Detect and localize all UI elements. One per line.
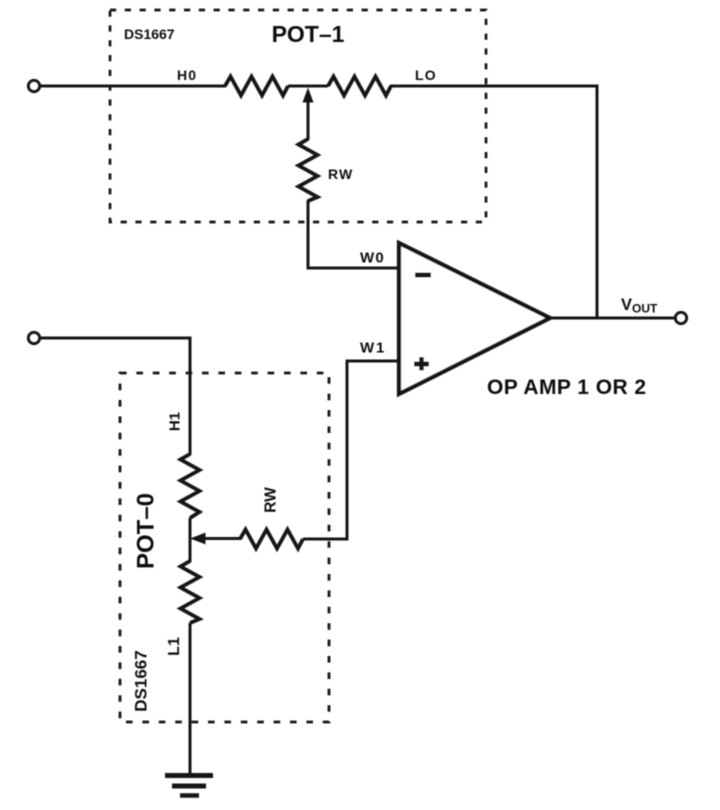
svg-text:DS1667: DS1667 bbox=[132, 650, 151, 711]
svg-text:L1: L1 bbox=[166, 637, 183, 656]
svg-text:RW: RW bbox=[263, 487, 280, 513]
wiper arrow of POT-0 bbox=[190, 533, 206, 545]
input terminal T1 bbox=[28, 80, 39, 91]
resistor L1 side (POT-0 lower element) bbox=[181, 561, 200, 623]
ground bbox=[165, 773, 213, 778]
svg-text:H0: H0 bbox=[177, 67, 197, 83]
wire H1 element to L1 element (through wiper node) bbox=[189, 518, 192, 562]
resistor H0 side (POT-1 upper element) bbox=[225, 77, 288, 96]
wiper arrow of POT-1 bbox=[303, 88, 314, 103]
wire T1 to H0 resistor bbox=[40, 85, 226, 88]
svg-text:W0: W0 bbox=[360, 250, 385, 267]
op-amp U1 bbox=[399, 243, 550, 394]
resistor LO side (POT-1 lower element) bbox=[328, 77, 391, 96]
resistor RW of POT-1 bbox=[299, 139, 318, 201]
svg-text:RW: RW bbox=[328, 166, 353, 182]
resistor RW of POT-0 bbox=[240, 530, 303, 549]
svg-text:DS1667: DS1667 bbox=[124, 26, 175, 42]
svg-text:POT–0: POT–0 bbox=[133, 493, 160, 569]
wire RW to W1 (op-amp non-inverting input) bbox=[303, 361, 399, 539]
dashed box POT-1 (DS1667) bbox=[110, 10, 486, 222]
input terminal T2 bbox=[28, 332, 39, 343]
svg-text:W1: W1 bbox=[360, 340, 386, 357]
wire RW to W0 (op-amp inverting input) bbox=[308, 200, 399, 268]
svg-text:POT–1: POT–1 bbox=[272, 21, 345, 47]
wire L1 to ground bbox=[189, 623, 192, 776]
wire LO to output node bbox=[390, 86, 597, 318]
svg-text:OP AMP 1 OR 2: OP AMP 1 OR 2 bbox=[487, 376, 647, 399]
svg-text:LO: LO bbox=[415, 67, 437, 83]
output terminal VOUT bbox=[675, 312, 686, 323]
svg-text:H1: H1 bbox=[167, 412, 184, 431]
wire op-amp output to VOUT terminal bbox=[550, 317, 675, 320]
wire between resistors (wiper node of POT-1) bbox=[288, 85, 328, 88]
svg-text:VOUT: VOUT bbox=[621, 296, 658, 316]
resistor H1 side (POT-0 upper element) bbox=[181, 454, 200, 518]
dashed box POT-0 (DS1667) bbox=[120, 373, 329, 722]
wire T2 to H1 bbox=[40, 338, 190, 455]
